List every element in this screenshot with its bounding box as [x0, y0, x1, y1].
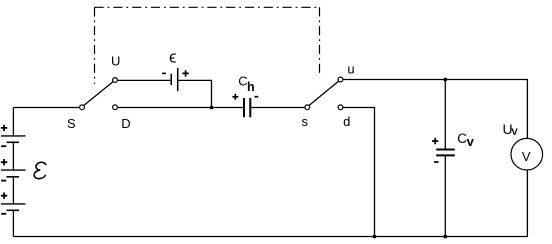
svg-text:h: h [247, 80, 255, 94]
wire: bottom rail [13, 236, 528, 238]
wire: battery top to switch S pivot [13, 107, 79, 109]
switch S (changeover S-U-D) [80, 78, 118, 110]
wire: Cv lower lead [444, 156, 446, 236]
voltmeter V (reads U_V) [511, 80, 543, 237]
label script-E (EMF) [34, 162, 46, 178]
switch s (changeover s-u-d) [305, 77, 343, 110]
svg-text:ϵ: ϵ [169, 48, 177, 67]
wire: epsilon positive plate down to main rail node [178, 80, 212, 107]
capacitor Cv polarity labels [432, 138, 439, 162]
svg-text:u: u [347, 62, 354, 77]
svg-text:V: V [522, 149, 531, 164]
capacitor Ch [244, 98, 250, 117]
wire: u terminal along top rail to voltmeter branch [343, 79, 528, 81]
svg-text:s: s [302, 114, 309, 129]
svg-text:V: V [511, 127, 518, 138]
battery E1 polarity labels [1, 125, 7, 214]
wire: d terminal down to bottom rail [343, 108, 375, 237]
svg-text:v: v [467, 134, 475, 149]
wire: D terminal to capacitor Ch [117, 107, 243, 109]
dash-dot boundary box [95, 7, 320, 84]
wire: Cv upper lead [444, 80, 446, 149]
capacitor Ch polarity labels [232, 94, 258, 100]
svg-text:d: d [343, 114, 350, 129]
node junction (epsilon branch / main rail) [210, 106, 214, 110]
battery epsilon (auxiliary cell) [171, 68, 178, 91]
battery E1 (3-cell EMF source) [1, 108, 26, 237]
svg-text:D: D [121, 116, 130, 131]
wire: U terminal to cell epsilon negative plate [117, 79, 170, 81]
battery epsilon polarity labels [162, 70, 189, 76]
svg-text:U: U [111, 53, 120, 68]
wire: Ch to switch s pivot [251, 107, 304, 109]
node junction (bottom of Cv) [443, 235, 447, 239]
node junction (d branch / bottom rail) [373, 235, 377, 239]
svg-text:S: S [67, 116, 76, 131]
capacitor Cv [436, 150, 455, 156]
node junction (top of Cv) [443, 78, 447, 82]
